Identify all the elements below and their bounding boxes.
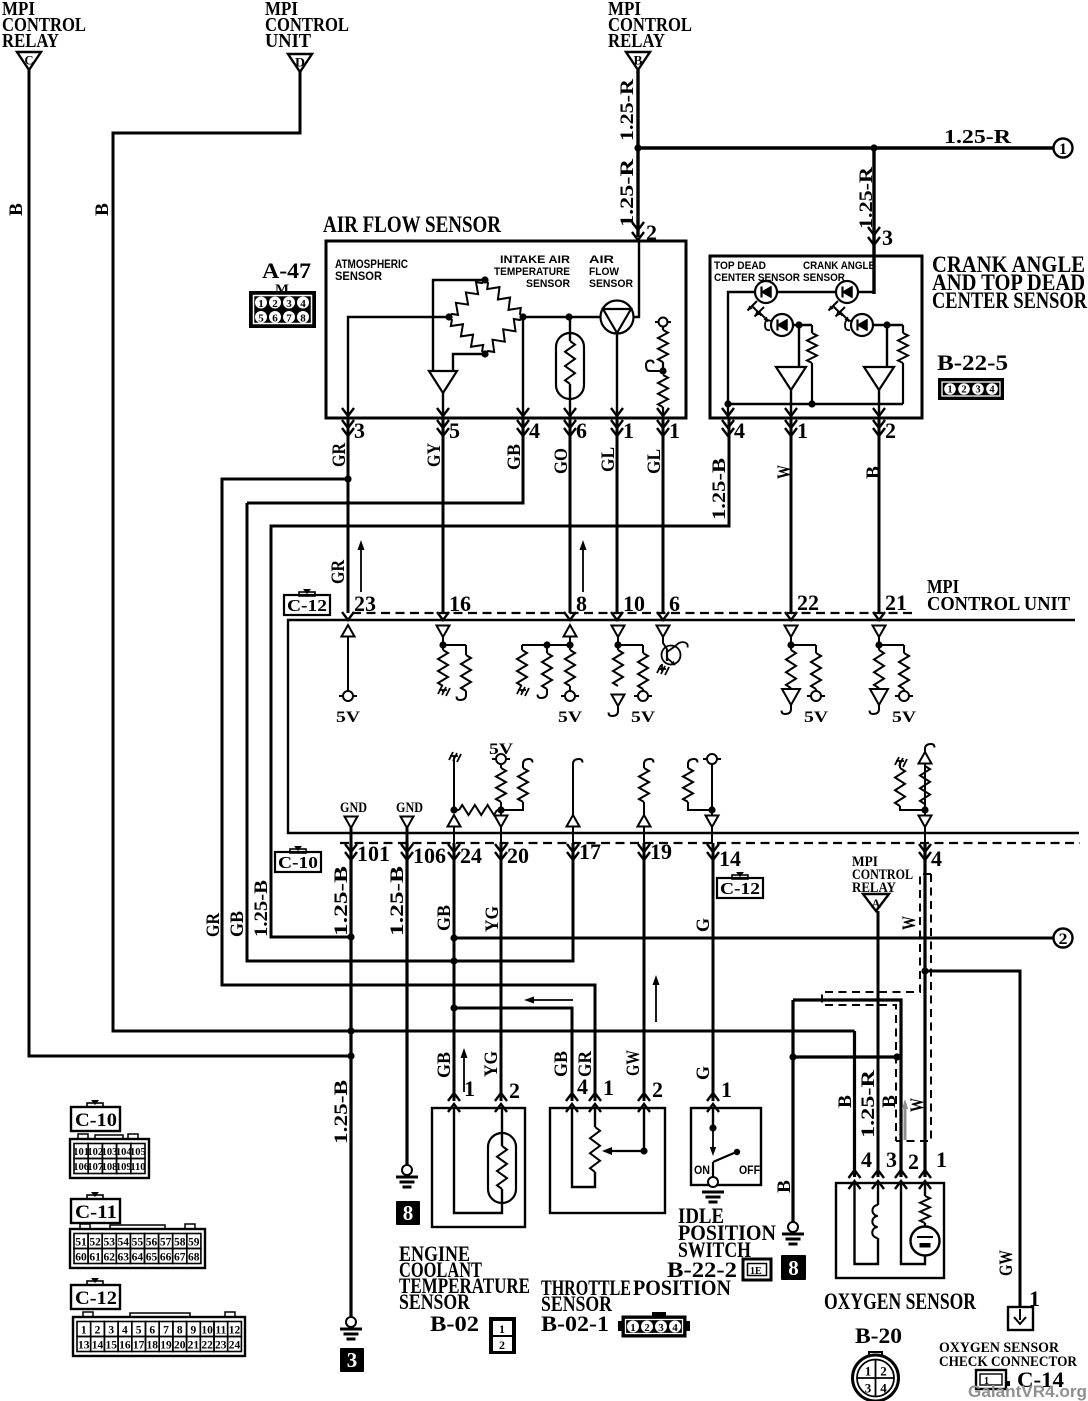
wire GR rail to TPS pin1 xyxy=(222,479,595,1101)
label CRANK ANGLE SENSOR xyxy=(803,260,875,284)
resistor mixture lower xyxy=(658,375,668,418)
label GND pin 106 xyxy=(396,800,423,843)
connector label box C-12 xyxy=(71,1278,120,1309)
pin 10 internal xyxy=(609,626,656,727)
svg-text:10: 10 xyxy=(623,591,645,616)
wire ECT pin2 internal xyxy=(501,1108,503,1146)
arrow annotation up at TPS pin2 xyxy=(653,975,660,1022)
wire bridge bottom to amplifier xyxy=(453,354,485,371)
svg-text:19: 19 xyxy=(160,1340,172,1352)
wire YG pin 20 to ECT pin 2 xyxy=(500,843,503,1101)
junction return left xyxy=(724,400,731,407)
svg-text:B-02-1: B-02-1 xyxy=(541,1311,609,1336)
svg-text:1.25-B: 1.25-B xyxy=(251,880,272,937)
bridge resistor bottom-left xyxy=(449,317,485,354)
label GND pin 101 xyxy=(340,800,367,843)
svg-text:3: 3 xyxy=(865,1381,872,1396)
oxygen pin 1 entry xyxy=(919,1147,947,1189)
pin 24 internal xyxy=(448,752,502,827)
svg-text:5V: 5V xyxy=(336,709,361,726)
svg-text:1: 1 xyxy=(630,1322,636,1334)
op-amp crank xyxy=(864,367,894,390)
bridge node top xyxy=(481,276,488,283)
svg-text:62: 62 xyxy=(103,1252,115,1264)
svg-text:1: 1 xyxy=(623,418,634,443)
svg-text:16: 16 xyxy=(449,591,471,616)
svg-text:2: 2 xyxy=(1059,931,1068,948)
pin 6 internal transistor xyxy=(657,626,688,676)
oxygen pin 3 entry xyxy=(872,1147,897,1189)
svg-text:2: 2 xyxy=(644,1322,650,1334)
wire GW branch to check connector xyxy=(925,971,1020,1307)
svg-text:4: 4 xyxy=(931,846,942,871)
shield dashed left upper xyxy=(822,874,931,1141)
svg-text:GW: GW xyxy=(996,1250,1017,1276)
pin 22 internal xyxy=(782,626,829,727)
svg-text:B: B xyxy=(92,203,113,216)
label ATMOSPHERIC SENSOR xyxy=(335,259,408,283)
junction C-bus xyxy=(347,1052,354,1059)
junction at intake temp sensor xyxy=(565,313,572,320)
ECT pin 1 entry xyxy=(448,1076,475,1112)
svg-text:106: 106 xyxy=(413,843,446,868)
pin 19 exit xyxy=(638,827,672,865)
wire bridge right to pin 4 xyxy=(522,317,524,418)
pin 4 exit xyxy=(919,827,942,871)
pin 17 exit xyxy=(567,827,601,865)
svg-text:FLOW: FLOW xyxy=(589,266,620,278)
svg-text:1: 1 xyxy=(464,1076,475,1101)
connector ref C-12 pin14 xyxy=(717,872,763,898)
arrow annotation up at pin 23 xyxy=(358,540,365,592)
svg-text:1.25-R: 1.25-R xyxy=(856,167,877,229)
bridge resistor bottom-right xyxy=(485,317,523,354)
svg-text:GalantVR4.org: GalantVR4.org xyxy=(968,1382,1087,1401)
svg-text:SENSOR: SENSOR xyxy=(335,271,383,283)
svg-text:4: 4 xyxy=(577,1074,588,1099)
pin 101 exit xyxy=(345,841,390,866)
svg-text:16: 16 xyxy=(119,1340,131,1352)
label MPI CONTROL RELAY (C) xyxy=(2,0,86,52)
svg-text:51: 51 xyxy=(75,1237,87,1249)
svg-text:GB: GB xyxy=(551,1051,572,1077)
junction at crank angle branch xyxy=(870,144,877,151)
label INTAKE AIR TEMPERATURE SENSOR xyxy=(494,254,570,290)
svg-text:C-10: C-10 xyxy=(75,1110,117,1131)
op-amp atmospheric sensor xyxy=(429,371,457,393)
svg-text:7: 7 xyxy=(286,313,292,325)
svg-text:RELAY: RELAY xyxy=(2,30,59,52)
intake air temperature sensing element xyxy=(556,317,584,418)
svg-text:GR: GR xyxy=(203,913,224,937)
svg-text:4: 4 xyxy=(672,1322,678,1334)
svg-text:1.25-R: 1.25-R xyxy=(617,159,638,227)
svg-text:3: 3 xyxy=(975,385,980,396)
label MPI CONTROL UNIT xyxy=(927,576,1071,615)
pin 1 exit (mixture) xyxy=(657,408,680,443)
junction shield/ground link xyxy=(893,1053,900,1060)
svg-text:2: 2 xyxy=(95,1325,101,1337)
svg-text:24: 24 xyxy=(460,843,482,868)
wire bridge left to pin 3 xyxy=(348,317,449,418)
svg-text:3: 3 xyxy=(108,1325,114,1337)
svg-text:RELAY: RELAY xyxy=(608,30,665,52)
wire GW pin 19 to TPS pin 2 xyxy=(643,843,646,1101)
arrow annotation W up xyxy=(902,1099,908,1140)
svg-text:14: 14 xyxy=(719,846,741,871)
svg-text:CONTROL UNIT: CONTROL UNIT xyxy=(927,593,1071,615)
arrow into crank sensor pin 3 xyxy=(868,225,893,250)
wire GR airflow3 to pin 23 xyxy=(347,418,350,613)
wire GL airflow1b to pin 6 xyxy=(662,418,665,613)
svg-text:B-22-2: B-22-2 xyxy=(667,1257,737,1282)
svg-text:3: 3 xyxy=(286,298,292,310)
svg-text:4: 4 xyxy=(122,1325,128,1337)
svg-text:B: B xyxy=(774,1180,795,1193)
wire B oxygen pin 4 xyxy=(853,1031,856,1177)
svg-text:YG: YG xyxy=(481,1051,502,1077)
connector ref C-10 bottom xyxy=(275,846,321,872)
svg-text:OFF: OFF xyxy=(739,1163,760,1177)
svg-text:8: 8 xyxy=(177,1325,183,1337)
wire feed to LEDs xyxy=(858,292,874,294)
pin 106 exit xyxy=(401,843,446,868)
wire W MPI pin4 down xyxy=(923,843,926,1177)
wire GY airflow5 to pin 16 xyxy=(442,418,445,613)
svg-text:67: 67 xyxy=(174,1252,186,1264)
wire crank photodiode output xyxy=(873,324,903,326)
junction W branch xyxy=(921,967,928,974)
svg-text:1: 1 xyxy=(669,418,680,443)
wire LED to left rail xyxy=(728,292,755,418)
arrow into air flow sensor pin 2 xyxy=(632,220,657,245)
MPI unit inner box xyxy=(288,620,1079,833)
wire 1.25-R from relay B to air flow sensor xyxy=(636,70,639,237)
svg-text:5V: 5V xyxy=(892,709,917,726)
connector triangle C xyxy=(17,52,41,70)
svg-text:5V: 5V xyxy=(804,709,829,726)
ECT pin 2 entry xyxy=(495,1078,520,1112)
pin 22 entry xyxy=(785,590,819,620)
pin 16 entry xyxy=(437,591,471,620)
svg-text:3: 3 xyxy=(882,225,893,250)
idle switch pin 1 entry xyxy=(707,1077,732,1112)
svg-text:B-22-5: B-22-5 xyxy=(937,350,1008,375)
wire bridge right to air flow sensor element xyxy=(523,316,601,318)
svg-text:58: 58 xyxy=(174,1237,186,1249)
svg-text:GW: GW xyxy=(623,1050,644,1076)
crank angle and TDC sensor box xyxy=(710,256,922,418)
pin 17 internal xyxy=(567,759,583,827)
svg-text:GR: GR xyxy=(328,560,349,584)
wire air flow element to pin 1 xyxy=(616,333,618,418)
svg-text:CRANK ANGLE: CRANK ANGLE xyxy=(803,260,875,272)
svg-text:59: 59 xyxy=(188,1237,200,1249)
svg-text:1.25-B: 1.25-B xyxy=(387,866,408,936)
wire amplifier to pin 5 xyxy=(442,393,444,418)
svg-text:B: B xyxy=(835,1095,856,1108)
svg-text:1: 1 xyxy=(721,1077,732,1102)
svg-text:3: 3 xyxy=(658,1322,664,1334)
svg-text:INTAKE AIR: INTAKE AIR xyxy=(500,254,570,266)
svg-text:57: 57 xyxy=(160,1237,172,1249)
svg-text:4: 4 xyxy=(880,1381,887,1396)
ground idle switch xyxy=(702,1192,724,1202)
thermistor ECT xyxy=(488,1133,516,1203)
connector table C-12 xyxy=(73,1312,245,1356)
pin 24 exit xyxy=(448,827,482,869)
svg-text:SENSOR: SENSOR xyxy=(803,272,845,284)
svg-text:AIR FLOW SENSOR: AIR FLOW SENSOR xyxy=(323,212,501,237)
throttle position sensor box xyxy=(550,1108,665,1213)
svg-text:17: 17 xyxy=(133,1340,145,1352)
wire G pin 14 to idle switch xyxy=(712,843,715,1101)
resistor TDC pull xyxy=(807,325,817,404)
svg-text:9: 9 xyxy=(191,1325,197,1337)
wire common return xyxy=(728,403,903,405)
wire ECT pin1 internal xyxy=(454,1108,502,1213)
pin 1 exit (flow signal) xyxy=(611,408,634,443)
svg-text:52: 52 xyxy=(89,1237,101,1249)
MPI unit dashed top border xyxy=(352,612,916,614)
wire 1.25-B pin 106 to ground 8 xyxy=(405,843,408,1165)
pin 2 exit xyxy=(873,408,896,443)
svg-text:7: 7 xyxy=(163,1325,169,1337)
svg-text:18: 18 xyxy=(147,1340,159,1352)
svg-text:6: 6 xyxy=(576,418,587,443)
label THROTTLE POSITION SENSOR xyxy=(541,1275,731,1316)
pin 20 internal xyxy=(489,741,533,827)
svg-text:1: 1 xyxy=(865,1364,872,1379)
svg-text:B: B xyxy=(6,203,27,216)
svg-text:53: 53 xyxy=(103,1237,115,1249)
junction pin24/terminal2 xyxy=(450,934,457,941)
connector triangle D xyxy=(288,54,312,72)
pin 20 exit xyxy=(495,827,529,868)
svg-text:20: 20 xyxy=(174,1340,186,1352)
label AIR FLOW SENSOR small xyxy=(589,254,633,290)
svg-text:4: 4 xyxy=(734,418,745,443)
pin 14 exit xyxy=(707,827,741,871)
svg-text:W: W xyxy=(907,1098,928,1112)
svg-text:AIR: AIR xyxy=(589,254,614,266)
svg-text:2: 2 xyxy=(961,385,966,396)
wire shield ground link xyxy=(793,1055,897,1058)
svg-text:D: D xyxy=(295,55,305,70)
svg-text:B: B xyxy=(863,466,884,479)
wire TDC photodiode output xyxy=(793,324,812,326)
pin 8 internal xyxy=(517,625,583,726)
junction at relay B wire xyxy=(634,144,641,151)
svg-text:4: 4 xyxy=(989,385,995,396)
svg-text:5: 5 xyxy=(449,418,460,443)
svg-text:60: 60 xyxy=(75,1252,87,1264)
connector label box C-11 xyxy=(71,1192,120,1223)
photodiode base hook crank xyxy=(845,320,851,330)
shield dashed right xyxy=(896,874,931,1141)
svg-text:110: 110 xyxy=(130,1162,145,1173)
connector ref 1E xyxy=(743,1259,771,1280)
svg-text:1: 1 xyxy=(936,1147,947,1172)
svg-text:10: 10 xyxy=(201,1325,213,1337)
pin 14 internal xyxy=(683,754,721,827)
svg-text:C-11: C-11 xyxy=(75,1202,117,1223)
svg-text:19: 19 xyxy=(650,839,672,864)
svg-text:101: 101 xyxy=(357,841,390,866)
svg-text:8: 8 xyxy=(576,591,587,616)
photodiode TDC xyxy=(771,314,793,336)
TPS pin 2 entry xyxy=(638,1077,663,1112)
connector triangle A xyxy=(863,894,889,911)
svg-text:4: 4 xyxy=(861,1147,872,1172)
pin 10 entry xyxy=(611,591,645,620)
off-page terminal 2 xyxy=(1054,929,1073,949)
svg-text:G: G xyxy=(693,1066,714,1080)
svg-text:2: 2 xyxy=(499,1338,505,1352)
svg-text:1.25-R: 1.25-R xyxy=(617,79,638,141)
svg-text:W: W xyxy=(899,916,920,930)
arrow annotation left at TPS xyxy=(524,997,573,1004)
wire 1.25-B pin 101 to ground 3 xyxy=(349,843,352,1317)
oxygen pin 2 entry xyxy=(895,1149,919,1189)
junction pin24/TPS feed xyxy=(450,1004,457,1011)
connector B-02 pinout xyxy=(489,1317,516,1354)
junction B/ground link xyxy=(789,1053,796,1060)
svg-text:61: 61 xyxy=(89,1252,101,1264)
wire crank amp to pin 2 xyxy=(878,390,880,418)
connector ref C-12 top xyxy=(284,589,330,615)
connector B-22-5 pinout xyxy=(939,379,1003,399)
svg-text:5: 5 xyxy=(136,1325,142,1337)
wire GL airflow1 to pin 10 xyxy=(616,418,619,613)
connector B-02-1 pinout xyxy=(618,1312,690,1337)
svg-text:1: 1 xyxy=(1059,141,1067,158)
oxygen sensor box xyxy=(836,1183,944,1278)
switch idle contact xyxy=(708,1108,740,1187)
pin 4 exit of crank sensor xyxy=(722,408,745,443)
pin 1 exit xyxy=(785,408,808,443)
svg-text:5V: 5V xyxy=(631,709,656,726)
svg-text:1.25-R: 1.25-R xyxy=(858,1070,879,1138)
potentiometer TPS xyxy=(572,1108,600,1187)
wire GB airflow4 jog xyxy=(247,418,523,503)
junction GR branch xyxy=(344,475,351,482)
svg-text:C-12: C-12 xyxy=(287,596,327,615)
label ENGINE COOLANT TEMPERATURE SENSOR xyxy=(399,1241,530,1314)
wire GB rail xyxy=(247,503,573,961)
wire GB pin 24 to ECT pin 1 xyxy=(453,843,456,1101)
terminal on mixture resistor xyxy=(655,318,671,327)
bridge resistor top-right xyxy=(485,280,523,317)
svg-text:21: 21 xyxy=(885,590,907,615)
wire B crank2 to pin 21 xyxy=(878,418,881,613)
svg-text:1.25-B: 1.25-B xyxy=(709,458,730,520)
svg-text:6: 6 xyxy=(669,591,680,616)
svg-text:11: 11 xyxy=(215,1325,226,1337)
svg-text:CENTER SENSOR: CENTER SENSOR xyxy=(714,272,800,284)
pin 4 exit xyxy=(517,408,540,443)
wiper tap xyxy=(646,361,661,372)
svg-text:GB: GB xyxy=(227,911,248,937)
light beams crank xyxy=(829,301,850,322)
svg-text:GND: GND xyxy=(340,800,367,816)
heater circuit oxygen xyxy=(855,1183,879,1264)
junction crank output xyxy=(883,321,890,328)
wire 1.25-R relay A to oxygen pin 3 xyxy=(877,911,880,1177)
svg-text:1: 1 xyxy=(499,1322,505,1336)
svg-text:UNIT: UNIT xyxy=(265,30,312,52)
svg-text:14: 14 xyxy=(92,1340,104,1352)
wire 1.25-B rail xyxy=(271,418,729,937)
svg-text:20: 20 xyxy=(507,843,529,868)
svg-text:1.25-R: 1.25-R xyxy=(944,126,1012,148)
svg-text:B: B xyxy=(634,53,643,68)
label MPI CONTROL UNIT (D) xyxy=(265,0,349,52)
junction mixture tap xyxy=(659,367,666,374)
wire GO airflow6 to pin 8 xyxy=(569,418,572,613)
svg-text:109: 109 xyxy=(116,1162,132,1173)
svg-text:ON: ON xyxy=(694,1163,710,1177)
svg-text:2: 2 xyxy=(272,298,278,310)
svg-text:23: 23 xyxy=(354,591,376,616)
svg-text:5V: 5V xyxy=(558,709,583,726)
pin 21 internal xyxy=(870,626,917,727)
svg-text:5: 5 xyxy=(258,313,264,325)
svg-text:1: 1 xyxy=(947,385,952,396)
off-page terminal 1 xyxy=(1054,139,1073,159)
oxygen sensor check connector box xyxy=(1008,1307,1033,1330)
label MPI CONTROL RELAY (A) xyxy=(852,854,913,896)
engine coolant temp sensor box xyxy=(432,1108,525,1227)
svg-text:63: 63 xyxy=(118,1252,130,1264)
svg-text:TOP DEAD: TOP DEAD xyxy=(714,260,766,272)
svg-text:105: 105 xyxy=(130,1147,146,1158)
svg-text:65: 65 xyxy=(146,1252,158,1264)
ground point 8 black box right xyxy=(781,1222,806,1280)
pin 16 internal xyxy=(437,626,472,701)
svg-text:54: 54 xyxy=(118,1237,130,1249)
wire between LEDs xyxy=(777,291,836,293)
svg-text:22: 22 xyxy=(797,590,819,615)
TPS pin 4 entry xyxy=(566,1074,588,1112)
svg-text:SENSOR: SENSOR xyxy=(589,278,633,290)
svg-text:B: B xyxy=(879,1095,900,1108)
junction 1.25-B rail to ground bus xyxy=(347,933,354,940)
svg-text:1: 1 xyxy=(81,1325,87,1337)
arrow annotation up at pin 8 xyxy=(580,540,587,592)
svg-text:2: 2 xyxy=(880,1364,887,1379)
wire W crank1 to pin 22 xyxy=(790,418,793,613)
svg-text:55: 55 xyxy=(132,1237,144,1249)
svg-text:13: 13 xyxy=(78,1340,90,1352)
svg-text:8: 8 xyxy=(403,1201,414,1225)
svg-text:21: 21 xyxy=(188,1340,200,1352)
wire crank output to amp xyxy=(886,325,888,367)
svg-text:22: 22 xyxy=(201,1340,213,1352)
bridge resistor top-left xyxy=(449,280,485,317)
ground point 8 black box pin106 xyxy=(396,1165,420,1225)
air flow sensor box xyxy=(326,241,686,418)
svg-text:1: 1 xyxy=(603,1075,614,1100)
wire TDC amp to pin 1 xyxy=(790,390,792,418)
svg-text:3: 3 xyxy=(347,1348,358,1372)
pin 3 exit of air flow sensor xyxy=(342,408,365,443)
svg-text:6: 6 xyxy=(149,1325,155,1337)
ground point 3 black box pin101 xyxy=(340,1317,364,1372)
wire 1.25-R bus to terminal 1 xyxy=(638,146,1054,149)
junction return mid xyxy=(808,400,815,407)
sensing cell oxygen xyxy=(901,1183,940,1264)
